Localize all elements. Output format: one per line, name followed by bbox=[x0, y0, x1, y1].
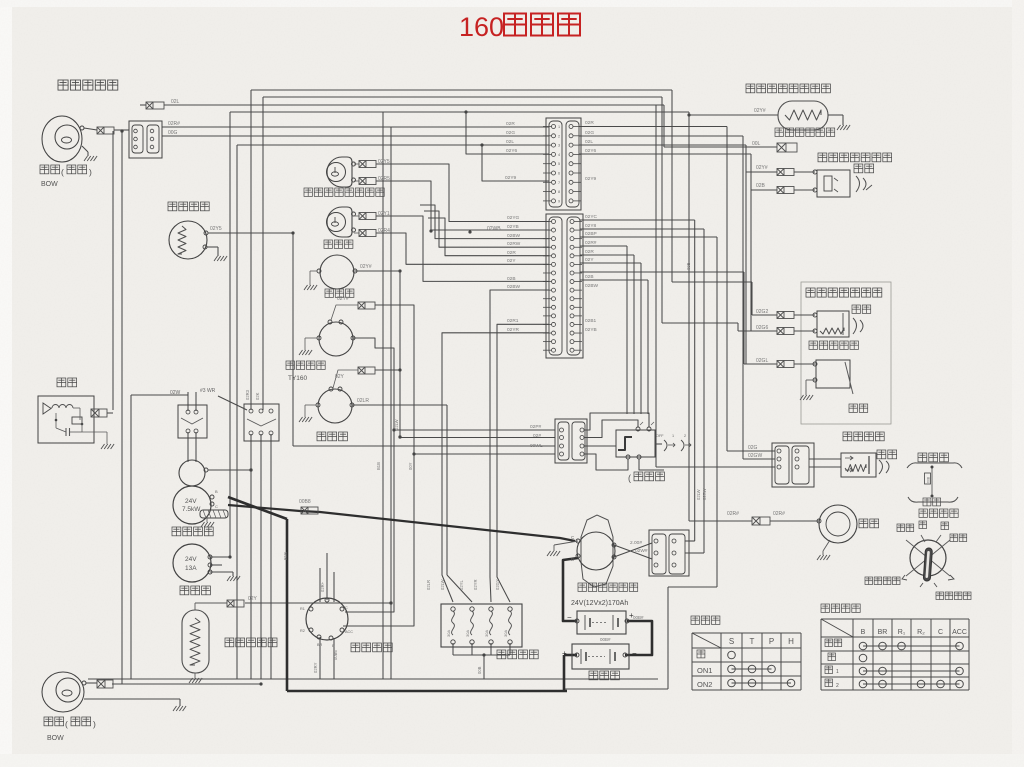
svg-text:2.00#: 2.00# bbox=[630, 540, 642, 546]
svg-text:02YB: 02YB bbox=[507, 224, 519, 230]
svg-text:1: 1 bbox=[836, 669, 839, 675]
svg-text:02B: 02B bbox=[585, 274, 594, 280]
svg-text:02YB: 02YB bbox=[585, 327, 597, 333]
svg-text:5: 5 bbox=[558, 162, 560, 166]
svg-text:C: C bbox=[215, 504, 218, 509]
svg-text:02Y: 02Y bbox=[585, 257, 594, 263]
svg-text:P: P bbox=[769, 637, 774, 646]
svg-text:8: 8 bbox=[558, 190, 560, 194]
svg-text:02Y: 02Y bbox=[248, 596, 258, 602]
svg-text:1: 1 bbox=[558, 125, 560, 129]
svg-text:02P#: 02P# bbox=[530, 424, 542, 430]
svg-text:02B: 02B bbox=[756, 183, 766, 189]
svg-text:02BW: 02BW bbox=[507, 233, 521, 239]
svg-text:02K: 02K bbox=[255, 392, 260, 400]
svg-text:B1B: B1B bbox=[376, 462, 381, 470]
svg-text:02YG: 02YG bbox=[507, 215, 520, 221]
svg-text:−: − bbox=[632, 649, 637, 658]
svg-text:02LW: 02LW bbox=[394, 419, 399, 430]
svg-text:02G: 02G bbox=[585, 130, 594, 136]
svg-text:00B#: 00B# bbox=[600, 637, 611, 642]
svg-text:02GW: 02GW bbox=[748, 453, 762, 459]
svg-text:02LR: 02LR bbox=[357, 398, 369, 404]
svg-text:02G: 02G bbox=[748, 445, 758, 451]
svg-text:160: 160 bbox=[459, 12, 504, 42]
svg-text:7.5kW: 7.5kW bbox=[182, 506, 201, 513]
svg-text:R₁: R₁ bbox=[898, 629, 906, 636]
svg-text:7: 7 bbox=[558, 181, 560, 185]
svg-text:02R#: 02R# bbox=[773, 511, 785, 517]
svg-text:3: 3 bbox=[558, 144, 560, 148]
svg-text:02B: 02B bbox=[507, 276, 516, 282]
svg-text:ACC: ACC bbox=[952, 629, 967, 636]
svg-text:02BW: 02BW bbox=[585, 283, 599, 289]
svg-text:02#: 02# bbox=[533, 433, 541, 439]
svg-text:C: C bbox=[345, 606, 348, 610]
svg-text:02R4: 02R4 bbox=[378, 228, 390, 234]
svg-text:02Y#: 02Y# bbox=[337, 296, 349, 302]
svg-text:BR: BR bbox=[317, 643, 323, 647]
svg-text:+: + bbox=[562, 649, 567, 658]
svg-text:00B: 00B bbox=[477, 666, 482, 674]
svg-text:−: − bbox=[567, 613, 572, 622]
svg-text:2: 2 bbox=[558, 134, 560, 138]
svg-text:30A: 30A bbox=[484, 630, 489, 637]
svg-text:02LW: 02LW bbox=[696, 489, 701, 500]
svg-text:02L: 02L bbox=[506, 139, 514, 145]
svg-text:02R5: 02R5 bbox=[378, 176, 390, 182]
svg-text:00B: 00B bbox=[686, 262, 691, 270]
svg-text:B: B bbox=[861, 629, 866, 636]
svg-text:02Y6: 02Y6 bbox=[585, 148, 597, 154]
svg-text:): ) bbox=[93, 719, 96, 729]
svg-text:02Y: 02Y bbox=[507, 258, 516, 264]
svg-text:BOW: BOW bbox=[41, 181, 58, 188]
svg-text:02B1: 02B1 bbox=[585, 318, 597, 324]
svg-text:(: ( bbox=[65, 719, 68, 729]
svg-text:24V: 24V bbox=[185, 556, 197, 563]
svg-text:00Y: 00Y bbox=[408, 462, 413, 470]
svg-text:02L: 02L bbox=[585, 139, 593, 145]
svg-text:00G: 00G bbox=[168, 130, 178, 136]
svg-text:02R1: 02R1 bbox=[507, 318, 519, 324]
svg-text:02R: 02R bbox=[585, 120, 594, 126]
svg-text:BOW: BOW bbox=[47, 735, 64, 742]
svg-text:02R#: 02R# bbox=[727, 511, 739, 517]
svg-text:30A: 30A bbox=[446, 630, 451, 637]
svg-text:02GY: 02GY bbox=[495, 579, 500, 590]
svg-text:02YL: 02YL bbox=[459, 580, 464, 590]
svg-text:02Y#: 02Y# bbox=[756, 165, 768, 171]
svg-text:02BW: 02BW bbox=[507, 284, 521, 290]
svg-text:02Y6: 02Y6 bbox=[506, 148, 518, 154]
svg-text:02Y#: 02Y# bbox=[360, 264, 372, 270]
svg-text:02GL: 02GL bbox=[756, 358, 768, 364]
svg-text:02LW: 02LW bbox=[440, 579, 445, 590]
svg-text:60B: 60B bbox=[927, 476, 931, 483]
svg-text:02BP: 02BP bbox=[585, 231, 597, 237]
svg-text:02RW: 02RW bbox=[702, 488, 707, 500]
svg-text:B: B bbox=[215, 489, 218, 494]
svg-text:+: + bbox=[629, 611, 634, 620]
svg-text:02G6: 02G6 bbox=[756, 325, 768, 331]
svg-text:00B6: 00B6 bbox=[333, 650, 338, 660]
svg-text:00L: 00L bbox=[752, 141, 761, 147]
svg-text:R1: R1 bbox=[300, 607, 305, 611]
svg-text:02G: 02G bbox=[506, 130, 515, 136]
svg-text:TY160: TY160 bbox=[288, 375, 308, 382]
svg-text:H: H bbox=[788, 637, 794, 646]
svg-text:R₂: R₂ bbox=[917, 629, 925, 636]
svg-text:02R#: 02R# bbox=[168, 121, 180, 127]
svg-text:00B#: 00B# bbox=[633, 615, 644, 620]
svg-text:OFF: OFF bbox=[656, 434, 664, 438]
svg-text:02YR: 02YR bbox=[507, 327, 520, 333]
svg-text:2: 2 bbox=[684, 434, 686, 438]
svg-text:S: S bbox=[729, 637, 734, 646]
svg-text:#3 WR: #3 WR bbox=[200, 388, 216, 394]
svg-text:02YC: 02YC bbox=[585, 214, 598, 220]
svg-text:ON1: ON1 bbox=[697, 666, 712, 675]
svg-text:13A: 13A bbox=[185, 565, 197, 572]
svg-text:02Y5: 02Y5 bbox=[210, 226, 222, 232]
svg-text:2: 2 bbox=[836, 683, 839, 689]
svg-text:02R: 02R bbox=[507, 250, 516, 256]
svg-text:02R3: 02R3 bbox=[245, 389, 250, 400]
svg-text:02W#: 02W# bbox=[635, 548, 648, 554]
svg-text:B1B: B1B bbox=[283, 552, 288, 560]
svg-text:30A: 30A bbox=[503, 630, 508, 637]
svg-text:02YR: 02YR bbox=[473, 580, 478, 590]
svg-text:02W: 02W bbox=[170, 390, 181, 396]
svg-text:9: 9 bbox=[558, 199, 560, 203]
svg-text:24V: 24V bbox=[185, 498, 197, 505]
svg-text:C: C bbox=[938, 629, 943, 636]
svg-text:02R: 02R bbox=[585, 249, 594, 255]
svg-text:02RW: 02RW bbox=[507, 241, 521, 247]
svg-text:02Y#: 02Y# bbox=[754, 108, 766, 114]
svg-text:02G2: 02G2 bbox=[756, 309, 768, 315]
svg-text:24V(12Vx2)170Ah: 24V(12Vx2)170Ah bbox=[571, 600, 628, 607]
svg-text:02Y: 02Y bbox=[335, 374, 345, 380]
svg-text:00WL: 00WL bbox=[530, 443, 543, 449]
svg-text:02Y9: 02Y9 bbox=[505, 175, 517, 181]
svg-text:02Y8: 02Y8 bbox=[585, 223, 597, 229]
svg-text:02Y1: 02Y1 bbox=[378, 211, 390, 217]
svg-text:ON2: ON2 bbox=[697, 680, 712, 689]
svg-text:): ) bbox=[89, 167, 92, 177]
svg-text:BR: BR bbox=[878, 629, 888, 636]
svg-text:(: ( bbox=[61, 167, 64, 177]
svg-text:02Y9: 02Y9 bbox=[585, 176, 597, 182]
svg-text:R2: R2 bbox=[300, 629, 305, 633]
svg-text:02LR: 02LR bbox=[426, 580, 431, 590]
svg-text:ACC: ACC bbox=[345, 630, 353, 634]
svg-text:02WB: 02WB bbox=[487, 226, 501, 232]
svg-text:1: 1 bbox=[672, 434, 674, 438]
svg-text:6: 6 bbox=[558, 172, 560, 176]
svg-text:4: 4 bbox=[558, 153, 560, 157]
svg-text:02R: 02R bbox=[506, 121, 515, 127]
svg-text:30A: 30A bbox=[465, 630, 470, 637]
svg-text:B: B bbox=[571, 557, 574, 562]
svg-text:02RY: 02RY bbox=[313, 662, 318, 673]
svg-text:02R#: 02R# bbox=[585, 240, 597, 246]
svg-text:00B8: 00B8 bbox=[299, 499, 311, 505]
svg-text:02Y5: 02Y5 bbox=[378, 159, 390, 165]
svg-text:02L: 02L bbox=[171, 99, 180, 105]
svg-text:(: ( bbox=[628, 473, 631, 483]
svg-text:02R+: 02R+ bbox=[320, 581, 325, 592]
svg-text:T: T bbox=[750, 637, 755, 646]
